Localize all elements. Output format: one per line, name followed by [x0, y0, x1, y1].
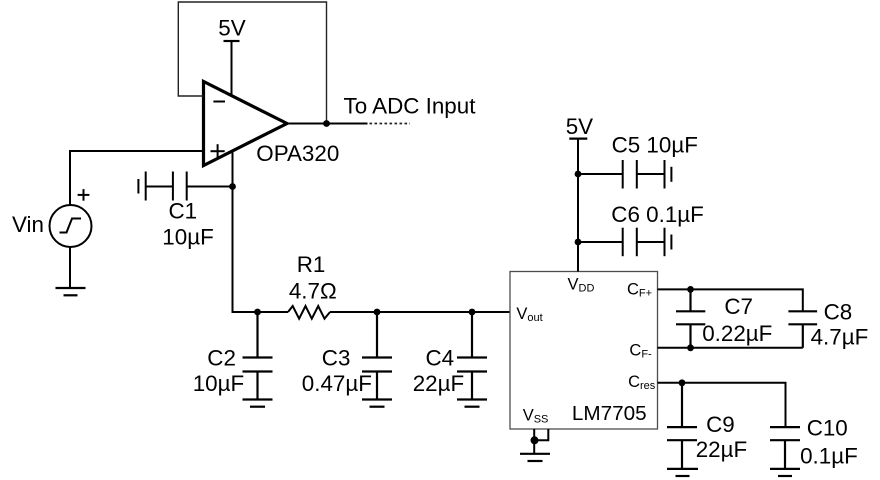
ground (Vin)	[56, 288, 86, 295]
capacitor C2	[243, 312, 273, 400]
svg-text:4.7µF: 4.7µF	[811, 324, 869, 349]
svg-text:C4: C4	[426, 346, 455, 371]
svg-text:C8: C8	[824, 300, 853, 325]
svg-text:Vin: Vin	[12, 212, 44, 237]
capacitor C1	[138, 172, 186, 201]
node C1 junction	[229, 183, 236, 190]
svg-text:C10: C10	[807, 416, 848, 441]
wire CF+ net	[658, 289, 803, 311]
node VSS	[531, 436, 539, 444]
capacitor C5	[578, 160, 671, 189]
svg-text:0.22µF: 0.22µF	[702, 321, 772, 346]
dotted continuation wire	[370, 123, 411, 125]
wire Vin top to op-amp plus input	[70, 151, 204, 205]
svg-text:C2: C2	[207, 346, 236, 371]
ground (C3)	[362, 400, 392, 407]
wire Vin bottom to ground	[69, 247, 71, 288]
node C6 junction	[575, 239, 582, 246]
svg-text:C5 10µF: C5 10µF	[612, 133, 698, 158]
wire CF- net	[658, 347, 803, 349]
wire rail right segment to LM7705 Vout	[330, 311, 510, 313]
svg-text:4.7Ω: 4.7Ω	[289, 279, 337, 304]
capacitor C8	[788, 311, 817, 348]
op-amp U1 OPA320	[204, 82, 288, 166]
ground (C9)	[667, 469, 698, 476]
svg-text:22µF: 22µF	[413, 371, 464, 396]
capacitor C6	[578, 228, 671, 257]
svg-text:22µF: 22µF	[696, 437, 747, 462]
node Cres C9	[679, 379, 686, 386]
svg-text:C9: C9	[706, 412, 735, 437]
node CF- C7	[687, 344, 694, 351]
IC U2 LM7705 body	[510, 272, 658, 430]
feedback wire (output to inverting input)	[178, 2, 326, 124]
plus polarity mark	[78, 189, 90, 201]
svg-text:To ADC Input: To ADC Input	[344, 94, 477, 119]
node output junction	[323, 120, 330, 127]
wire plus-input node down to rail	[232, 151, 234, 312]
5V supply (op-amp)	[218, 15, 245, 96]
wire Cres net	[658, 383, 786, 427]
ground (VSS)	[520, 454, 550, 461]
wire VSS pin to ground	[534, 429, 548, 454]
ground (C10)	[770, 469, 800, 476]
svg-text:10µF: 10µF	[193, 371, 244, 396]
svg-text:C3: C3	[322, 346, 351, 371]
svg-text:0.47µF: 0.47µF	[302, 371, 372, 396]
svg-text:OPA320: OPA320	[256, 141, 339, 166]
svg-text:R1: R1	[297, 252, 326, 277]
capacitor C9	[667, 383, 697, 469]
svg-text:5V: 5V	[218, 15, 245, 40]
capacitor C4	[457, 312, 487, 400]
node rail-C4	[469, 309, 476, 316]
svg-text:LM7705: LM7705	[572, 402, 647, 425]
node rail-C2	[254, 309, 261, 316]
svg-text:C6 0.1µF: C6 0.1µF	[611, 202, 704, 227]
svg-text:C7: C7	[724, 294, 753, 319]
voltage source Vin	[50, 205, 92, 247]
node CF+ C7	[687, 286, 694, 293]
ground (C4)	[457, 400, 487, 407]
node rail-C3	[374, 309, 381, 316]
wire rail left segment	[232, 311, 289, 313]
svg-text:5V: 5V	[566, 114, 593, 139]
ground (C2)	[243, 400, 273, 407]
capacitor C7	[676, 289, 705, 347]
wire 5V down to VDD pin	[577, 139, 579, 272]
capacitor C3	[362, 312, 392, 400]
output wire	[287, 123, 368, 125]
capacitor C10	[770, 427, 800, 469]
wire C1 to plus-input node	[187, 186, 233, 188]
svg-text:0.1µF: 0.1µF	[800, 444, 858, 469]
svg-text:10µF: 10µF	[162, 224, 213, 249]
node C5 junction	[575, 171, 582, 178]
resistor R1	[288, 306, 330, 319]
svg-text:C1: C1	[169, 198, 198, 223]
5V supply (LM7705)	[566, 114, 593, 139]
